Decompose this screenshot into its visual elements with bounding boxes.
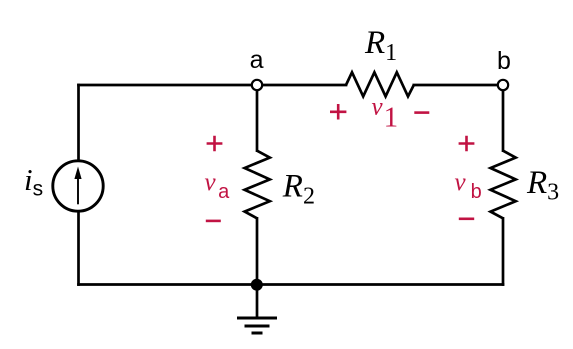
svg-text:R3: R3 [526,165,559,205]
svg-text:b: b [497,47,511,75]
svg-text:R1: R1 [364,25,397,66]
svg-text:v1: v1 [372,93,399,133]
svg-text:vb: vb [455,169,482,203]
svg-text:is: is [24,162,43,201]
svg-text:va: va [205,169,231,203]
svg-text:R2: R2 [282,169,315,210]
svg-text:a: a [250,46,264,74]
